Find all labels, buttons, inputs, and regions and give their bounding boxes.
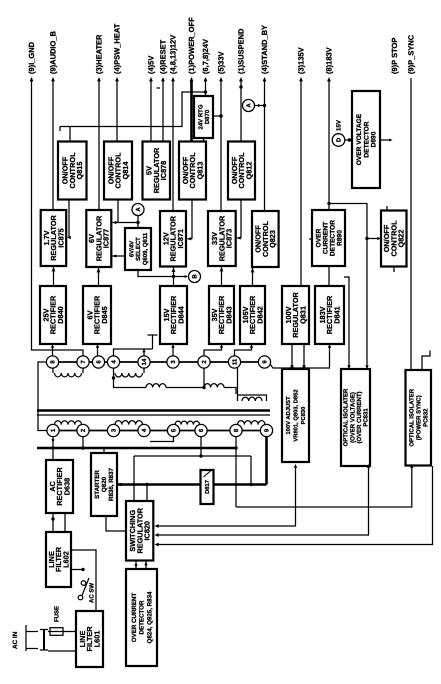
wire pin8 to 25V — [52, 346, 54, 356]
svg-text:(9)P STOP: (9)P STOP — [390, 38, 399, 74]
wire ic820 ocd a — [135, 561, 137, 570]
wire POWER_OFF line thick — [190, 80, 193, 142]
svg-text:DETECTOR: DETECTOR — [139, 600, 146, 634]
svg-text:(1)POWER_OFF: (1)POWER_OFF — [187, 17, 196, 74]
wire Q822 top tick — [386, 206, 388, 211]
junction L602 stub — [81, 568, 84, 571]
svg-text:Q820: Q820 — [101, 476, 108, 492]
wire L602 stub — [71, 569, 83, 571]
wire col winding frame — [238, 395, 267, 401]
wire col stub — [237, 368, 239, 395]
block 12V REGULATOR IC871 — [160, 211, 186, 267]
svg-text:(4)RESET: (4)RESET — [158, 39, 167, 74]
svg-text:Q824, Q925, R834: Q824, Q925, R834 — [146, 591, 153, 644]
svg-text:100V ADJUST: 100V ADJUST — [285, 396, 292, 435]
pin 3 secondary — [167, 356, 179, 368]
svg-text:(4)5V: (4)5V — [146, 56, 155, 74]
block SWITCHING REGULATOR IC820 — [126, 501, 153, 561]
winding sec 8-7 — [55, 373, 82, 377]
wire branch to Q822 and PC831 — [329, 204, 367, 370]
symbol D817 diag — [204, 471, 211, 477]
block 183V RECTIFIER D841 — [315, 286, 344, 344]
pin 5 primary — [167, 424, 179, 436]
wire pin1 to AC rect — [52, 436, 54, 460]
svg-text:L601: L601 — [92, 631, 101, 648]
wire 25V to IC875 — [53, 266, 55, 286]
svg-text:(OVER CURRENT): (OVER CURRENT) — [356, 391, 363, 443]
junction acrect a — [51, 517, 54, 520]
wire P_SYNC line — [410, 78, 412, 370]
wire ctl 526 — [157, 466, 296, 526]
wire pin2 to 35V rect — [204, 346, 222, 356]
block ON/OFF CONTROL Q812 — [228, 142, 255, 200]
svg-text:D843: D843 — [224, 306, 233, 323]
arrow 5V — [149, 77, 153, 81]
svg-text:15V: 15V — [336, 119, 343, 131]
junction SUSPEND — [239, 85, 242, 88]
wire pin11 to 105V rect — [235, 346, 252, 356]
wire aux link — [166, 387, 204, 389]
wire 183V rect in — [329, 346, 331, 368]
svg-text:R836, R837: R836, R837 — [108, 467, 115, 501]
block STARTER Q820 R836 R837 — [91, 453, 117, 516]
block ON/OFF CONTROL Q814 — [104, 142, 132, 200]
wire Bplus bus — [117, 483, 267, 486]
wire stub IC871 — [187, 238, 192, 240]
tick T bar — [148, 334, 158, 336]
arrow 24V — [204, 77, 208, 81]
junction pin1 — [51, 446, 54, 449]
arrow 105V in — [250, 344, 253, 348]
arrow STAND_BY — [263, 77, 267, 81]
svg-text:PC831: PC831 — [363, 408, 370, 427]
svg-text:FUSE: FUSE — [54, 606, 61, 622]
wire 35V to IC873 — [221, 266, 223, 286]
arrow SUSPEND — [239, 77, 243, 81]
arrow A2 — [258, 104, 261, 107]
arrow pstop stub — [389, 139, 392, 142]
wire acrect L602 a — [52, 513, 54, 532]
block ON/OFF CONTROL Q822 — [381, 211, 407, 267]
core line thin — [37, 414, 270, 416]
junction B line — [172, 275, 175, 278]
svg-text:D817: D817 — [204, 480, 211, 494]
svg-text:CURRENT: CURRENT — [322, 222, 329, 254]
wire mid line 456 — [134, 455, 251, 457]
wire line 507 — [236, 466, 412, 507]
wire Q822 bottom tick — [393, 267, 395, 273]
block OVER CURRENT DETECTOR Q824 — [126, 569, 157, 666]
node B — [189, 271, 201, 283]
winding aux a — [146, 384, 166, 388]
pin 4 primary — [138, 424, 150, 436]
junction pin6 — [199, 454, 202, 457]
arrow 6V to IC877 — [97, 268, 101, 272]
arrow into IC875 — [67, 236, 71, 239]
arrow 135V — [299, 77, 303, 81]
wire 183V line — [328, 80, 330, 210]
wire aux end — [224, 388, 236, 395]
core line thick — [37, 409, 270, 412]
svg-text:IC871: IC871 — [176, 229, 185, 248]
arrow 15V to IC871 — [172, 268, 176, 272]
wire into Q822 left — [367, 238, 377, 240]
winding aux b — [204, 384, 224, 388]
block 25V RECTIFIER D840 — [40, 286, 66, 344]
symbol fuse line — [50, 631, 63, 633]
block ON/OFF CONTROL Q813 — [179, 142, 206, 200]
wire L601 to L602 line — [71, 550, 96, 611]
arrow adjust b — [302, 365, 305, 369]
wire secondary row line — [47, 361, 271, 363]
wire Q814 to IC877 A — [118, 200, 138, 229]
svg-text:(1)SUSPEND: (1)SUSPEND — [236, 28, 245, 74]
wire ac bottom — [48, 650, 76, 652]
pin 3 primary — [107, 424, 119, 436]
block 100V REGULATOR Q831 — [282, 286, 309, 344]
wire SUSPEND line — [240, 80, 242, 142]
winding pri 1-2 — [55, 421, 82, 425]
wire 100Vreg to adjust a — [291, 344, 293, 369]
block 6V/4V SELECT Q809 Q811 — [125, 228, 151, 270]
wire pc831 in a — [344, 277, 349, 369]
wire pin4 drop — [114, 368, 147, 388]
svg-text:D845: D845 — [100, 306, 109, 323]
node A2 — [243, 100, 255, 112]
arrow adjust bottom — [294, 464, 297, 468]
block 35V RECTIFIER D843 — [209, 286, 234, 344]
svg-text:Q812: Q812 — [244, 162, 253, 180]
wire pin14 stub — [143, 351, 145, 356]
block 24V RTG D870 — [194, 96, 213, 138]
arrow pin8 to 25V — [51, 344, 54, 348]
wire acrect L602 b — [64, 513, 66, 532]
wire D to overvoltage det — [345, 139, 352, 141]
arrow pc831 bottom — [367, 464, 370, 468]
svg-text:(9)AUDIO_B: (9)AUDIO_B — [48, 30, 57, 74]
wire ctl 544 — [157, 466, 433, 545]
pin 1 primary — [47, 424, 59, 436]
block 6V REGULATOR IC877 — [86, 210, 111, 267]
junction tail a — [290, 366, 293, 369]
winding sec 4-14 — [115, 373, 143, 377]
block 100V ADJUST VR801 Q803 D852 PC830 — [282, 369, 309, 462]
wire primary row line — [47, 430, 267, 432]
junction 367 branch — [365, 237, 368, 240]
svg-text:R890: R890 — [336, 230, 343, 246]
wire 6V to IC877 — [98, 267, 100, 286]
wire pin6 to 6V — [97, 346, 99, 356]
svg-text:(3)135V: (3)135V — [296, 47, 305, 74]
arrow pin1 down — [51, 439, 54, 443]
svg-text:(6,7,8)24V: (6,7,8)24V — [201, 39, 210, 74]
svg-text:(9)I_GND: (9)I_GND — [27, 41, 36, 74]
block D817 — [201, 470, 214, 504]
svg-text:D638: D638 — [62, 478, 71, 495]
block LINE FILTER L601 — [76, 611, 103, 667]
wire starter top stub — [103, 448, 105, 453]
arrow into Q822 — [377, 237, 381, 240]
svg-text:Q814: Q814 — [121, 161, 130, 180]
winding col — [242, 397, 262, 401]
junction return pin8 — [234, 446, 237, 449]
wire pin2 drop — [203, 365, 205, 388]
wire 33V line — [220, 80, 222, 211]
svg-text:(POWER SYNC): (POWER SYNC) — [415, 395, 422, 440]
block OPTICAL ISOLATER PC832 — [406, 370, 432, 466]
arrow RESET — [161, 77, 165, 81]
wire 24Vreg to 33V line — [213, 115, 221, 117]
svg-text:(4,8,13)12V: (4,8,13)12V — [168, 35, 177, 74]
pin 11 secondary — [228, 356, 240, 368]
wire PSW_HEAT line — [116, 80, 118, 142]
wire top rail — [60, 92, 206, 127]
svg-text:D: D — [336, 137, 343, 142]
pin 2 primary — [77, 424, 89, 436]
block 1.7V REGULATOR IC875 — [41, 210, 66, 266]
pin 8 secondary — [46, 356, 58, 368]
wire 456 drop — [250, 456, 252, 485]
arrow ctl535 — [155, 533, 159, 537]
junction overvolt in — [348, 138, 351, 141]
svg-text:IC878: IC878 — [159, 161, 168, 180]
arrow POWER_OFF — [190, 77, 194, 81]
svg-text:24V RTG: 24V RTG — [197, 104, 204, 129]
svg-text:(4)STAND_BY: (4)STAND_BY — [260, 25, 269, 74]
block OVER VOLTAGE DETECTOR D890 — [352, 91, 380, 188]
wire ic820 stub a — [133, 456, 135, 501]
winding pri 3-4 — [115, 421, 143, 425]
block OVER CURRENT DETECTOR R890 — [312, 210, 345, 266]
svg-text:OPTICAL ISOLATER: OPTICAL ISOLATER — [343, 388, 350, 446]
pin 6 secondary — [92, 356, 104, 368]
wire AUDIO_B line — [52, 80, 54, 210]
svg-text:D890: D890 — [371, 131, 378, 147]
wire 15V to IC871 — [173, 267, 175, 287]
symbol fuse — [50, 628, 63, 636]
wire starter to ic820 — [106, 516, 126, 531]
wire Q812 to IC873 — [240, 200, 242, 239]
arrow pc832 bottom — [410, 464, 413, 468]
block 15V RECTIFIER D844 — [160, 286, 187, 344]
wire Q813 to IC871 — [191, 200, 193, 239]
svg-text:OPTICAL ISOLATER: OPTICAL ISOLATER — [408, 388, 415, 446]
pin 14 secondary — [138, 356, 150, 368]
arrow into IC873 — [237, 236, 241, 239]
svg-text:OVER CURRENT: OVER CURRENT — [131, 593, 138, 643]
wire select to B — [138, 270, 187, 277]
svg-text:Q831: Q831 — [298, 306, 307, 324]
svg-text:D840: D840 — [56, 306, 65, 323]
arrow 183V — [327, 77, 331, 81]
junction pin2 drop — [202, 386, 205, 389]
junction pin4 drop — [112, 376, 115, 379]
svg-text:AC SW: AC SW — [89, 583, 96, 603]
junction A node — [136, 221, 139, 224]
svg-text:(8)183V: (8)183V — [324, 47, 333, 74]
svg-text:IC877: IC877 — [102, 229, 111, 248]
junction 33V 24Vreg — [219, 114, 222, 117]
wire 100Vreg to R890 — [309, 238, 312, 240]
arrow ocd down — [134, 564, 137, 568]
wire ic820 stub b — [146, 485, 148, 502]
junction rail 24V — [204, 90, 207, 93]
wire ic820 ocd b — [145, 561, 147, 570]
arrow pin6 to 6V — [96, 344, 99, 348]
arrow PSW_HEAT — [115, 77, 119, 81]
svg-text:IC820: IC820 — [143, 521, 152, 540]
wire return line thick — [37, 447, 236, 450]
wire pin4 jog — [114, 349, 153, 356]
node D 15V — [332, 119, 345, 146]
wire stub IC873 — [237, 237, 241, 239]
svg-text:OVER: OVER — [315, 228, 322, 247]
arrow into IC871 — [187, 237, 191, 240]
block ON/OFF CONTROL Q823 — [252, 211, 279, 267]
svg-text:AC IN: AC IN — [12, 631, 19, 649]
svg-text:D842: D842 — [255, 306, 264, 323]
arrow 33V — [219, 77, 223, 81]
wire 24Vreg to Q813 — [203, 138, 205, 142]
winding pri 8-9 — [238, 421, 266, 425]
pin 6 primary — [195, 424, 207, 436]
arrow 12V — [171, 77, 175, 81]
svg-text:B: B — [192, 274, 199, 279]
wire 24V line — [205, 80, 207, 96]
wire 135V line — [300, 80, 302, 286]
wire rail left tick — [59, 127, 61, 132]
symbol AC SW — [78, 578, 89, 600]
wire pc832 hook — [422, 351, 430, 371]
arrow 35V to IC873 — [220, 267, 224, 271]
wire rail stub Q815 — [69, 127, 71, 142]
winding pri 5-6 — [175, 421, 200, 425]
wire select to IC877 — [111, 255, 125, 257]
wire overvolt pstop stub — [380, 139, 391, 141]
wire pin6 drop — [200, 436, 202, 456]
arrow ctl526 — [155, 524, 159, 528]
svg-text:A: A — [246, 103, 253, 108]
arrow I_GND — [30, 77, 34, 81]
block 5V REGULATOR IC878 — [143, 142, 171, 200]
block 105V RECTIFIER D842 — [240, 286, 265, 344]
wire A1 stub — [137, 216, 139, 223]
arrow 105V to Q823 — [251, 268, 255, 272]
svg-text:Q813: Q813 — [195, 162, 204, 180]
arrow 25V to IC875 — [52, 267, 56, 271]
wire pin4 T stub — [152, 335, 154, 349]
svg-text:11: 11 — [232, 358, 239, 365]
arrow pc831 b — [365, 365, 368, 369]
svg-text:(9)P_SYNC: (9)P_SYNC — [406, 34, 415, 74]
wire pin2 drop primary — [82, 436, 84, 448]
svg-text:14: 14 — [141, 358, 148, 365]
wire ctl 535 — [157, 466, 369, 535]
arrow pc831 a — [347, 365, 350, 369]
svg-text:A: A — [135, 207, 142, 212]
wire HEATER line — [98, 80, 100, 210]
svg-text:SELECT: SELECT — [135, 237, 142, 261]
arrow select IC877 — [113, 254, 117, 257]
junction STAND_BY A2 — [263, 104, 266, 107]
junction bus a — [120, 483, 123, 486]
block LINE FILTER L602 — [46, 532, 71, 587]
svg-text:DETECTOR: DETECTOR — [329, 220, 336, 256]
arrow HEATER — [97, 77, 101, 81]
arrow pin14 up — [142, 349, 145, 353]
wire 100Vreg to adjust b — [303, 344, 305, 369]
arrow ctl544 — [155, 543, 159, 547]
wire RESET line — [162, 80, 164, 142]
svg-text:(5)33V: (5)33V — [216, 51, 225, 74]
arrow into IC877 — [113, 221, 117, 224]
pin 9 primary — [260, 424, 272, 436]
wire I_GND line — [32, 80, 84, 356]
block AC RECTIFIER D602 — [46, 460, 73, 513]
svg-text:Q823: Q823 — [268, 230, 277, 248]
wire pin3 to 15V — [172, 346, 174, 356]
svg-text:D841: D841 — [332, 306, 341, 323]
pin 2 secondary — [198, 356, 210, 368]
svg-text:(4)PSW_HEAT: (4)PSW_HEAT — [112, 23, 121, 74]
node A1 — [132, 204, 144, 216]
svg-text:D844: D844 — [176, 305, 185, 323]
wire 12V line — [172, 80, 174, 211]
wire stub IC877 — [113, 222, 119, 224]
wire left loop — [38, 362, 48, 431]
arrow ocd up — [144, 562, 147, 566]
pin 9 secondary — [258, 356, 270, 368]
arrow 35V in — [220, 344, 223, 348]
symbol AC plug — [26, 625, 48, 651]
arrow pin3 to 15V — [171, 344, 174, 348]
wire Q815 to IC875 — [68, 200, 70, 238]
svg-text:D870: D870 — [204, 109, 211, 124]
arrow adjust a — [290, 365, 293, 369]
wire pin7 winding drop — [82, 367, 84, 373]
pin 7 secondary — [77, 356, 89, 368]
svg-text:DETECTOR: DETECTOR — [363, 121, 370, 157]
wire pin9 thick drop — [265, 436, 268, 485]
junction bus b — [145, 483, 148, 486]
svg-text:Q822: Q822 — [397, 230, 406, 248]
junction 183V branch — [327, 202, 330, 205]
junction tail b — [302, 366, 305, 369]
svg-text:VR801, Q803, D852: VR801, Q803, D852 — [293, 389, 300, 441]
block 6V RECTIFIER D845 — [83, 286, 111, 344]
block OPTICAL ISOLATER PC831 — [341, 369, 370, 466]
wire 5V line — [150, 80, 152, 142]
svg-text:Q815: Q815 — [75, 162, 84, 180]
svg-text:STARTER: STARTER — [94, 470, 101, 499]
wire pin8 winding drop — [52, 367, 54, 373]
arrow AUDIO_B — [51, 77, 55, 81]
junction pin2 primary — [81, 446, 84, 449]
pin 8 primary — [230, 424, 242, 436]
arrow into B — [185, 275, 188, 278]
svg-text:IC875: IC875 — [56, 228, 65, 247]
block 33V REGULATOR IC873 — [208, 211, 236, 266]
wire pin8 drop — [235, 436, 237, 507]
wire 105V to Q823 — [252, 267, 254, 286]
wire pin14 winding drop — [143, 367, 145, 373]
svg-text:IC873: IC873 — [225, 229, 234, 248]
svg-text:L602: L602 — [61, 551, 70, 568]
svg-text:6V/4V: 6V/4V — [128, 241, 135, 257]
wire A2 to standby — [255, 105, 265, 107]
wire R890 to 183V rect — [328, 266, 330, 286]
svg-text:OVER VOLTAGE: OVER VOLTAGE — [356, 113, 363, 165]
